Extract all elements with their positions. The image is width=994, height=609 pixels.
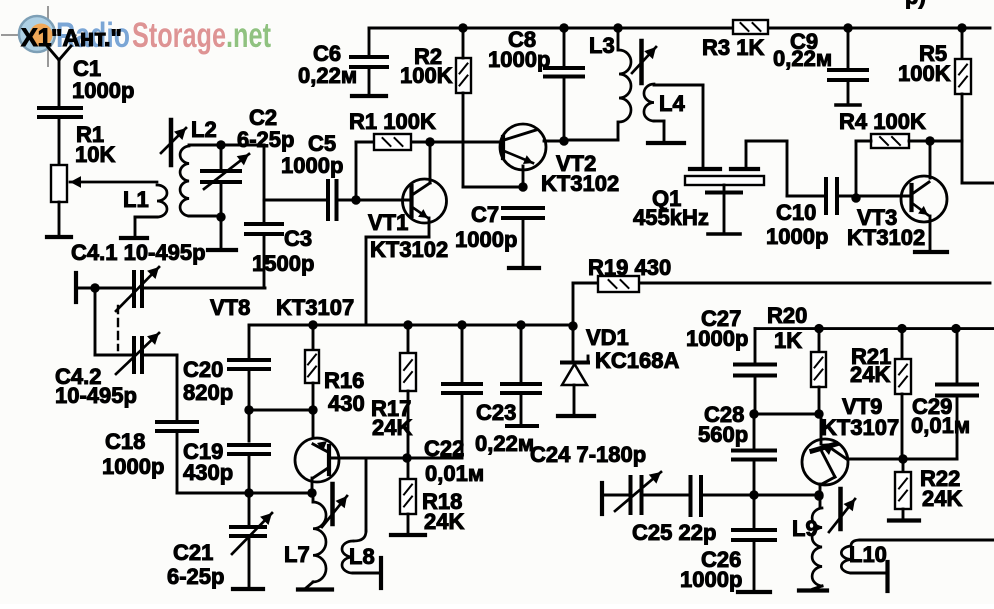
svg-text:24K: 24K — [372, 415, 412, 440]
svg-text:L9: L9 — [792, 516, 818, 541]
svg-text:KT3102: KT3102 — [370, 237, 448, 262]
svg-text:0,22м: 0,22м — [475, 431, 534, 456]
svg-text:KT3102: KT3102 — [847, 225, 925, 250]
svg-text:10K: 10K — [75, 142, 115, 167]
svg-text:1000p: 1000p — [680, 567, 742, 592]
svg-text:24K: 24K — [922, 486, 962, 511]
svg-text:24K: 24K — [850, 362, 890, 387]
svg-text:1000p: 1000p — [72, 78, 134, 103]
svg-text:KT3107: KT3107 — [276, 295, 354, 320]
svg-text:C25 22p: C25 22p — [632, 520, 716, 545]
svg-text:KT3102: KT3102 — [541, 171, 619, 196]
svg-text:C23: C23 — [476, 400, 516, 425]
svg-text:KC168A: KC168A — [595, 348, 679, 373]
svg-text:560p: 560p — [698, 422, 748, 447]
svg-text:0,01м: 0,01м — [911, 413, 970, 438]
svg-text:L7: L7 — [284, 542, 310, 567]
svg-text:6-25p: 6-25p — [237, 127, 294, 152]
svg-text:0,01м: 0,01м — [425, 461, 484, 486]
svg-text:C21: C21 — [173, 540, 213, 565]
svg-text:R3 1K: R3 1K — [702, 35, 764, 60]
svg-text:820p: 820p — [183, 380, 233, 405]
svg-text:L1: L1 — [123, 187, 149, 212]
svg-text:C10: C10 — [776, 200, 816, 225]
svg-text:10-495p: 10-495p — [55, 383, 137, 408]
svg-text:1000p: 1000p — [281, 153, 343, 178]
svg-text:KT3107: KT3107 — [821, 415, 899, 440]
svg-text:L8: L8 — [349, 544, 375, 569]
svg-text:100K: 100K — [898, 61, 951, 86]
svg-text:100K: 100K — [400, 63, 453, 88]
svg-text:C22: C22 — [424, 436, 464, 461]
svg-text:"Ант.": "Ант." — [51, 25, 122, 52]
svg-text:C4.1 10-495p: C4.1 10-495p — [71, 240, 206, 265]
svg-text:0,22м: 0,22м — [773, 46, 832, 71]
svg-text:1000p: 1000p — [686, 326, 748, 351]
svg-text:X1: X1 — [21, 24, 52, 52]
svg-text:24K: 24K — [424, 509, 464, 534]
svg-text:Storage: Storage — [132, 16, 226, 55]
svg-text:1K: 1K — [774, 328, 802, 353]
svg-text:R16: R16 — [324, 368, 364, 393]
svg-text:1000p: 1000p — [102, 454, 164, 479]
svg-text:1000p: 1000p — [455, 227, 517, 252]
svg-text:430: 430 — [328, 391, 365, 416]
svg-text:1000p: 1000p — [766, 224, 828, 249]
svg-text:C18: C18 — [105, 429, 145, 454]
svg-text:R1 100K: R1 100K — [349, 109, 436, 134]
svg-text:455kHz: 455kHz — [633, 205, 709, 230]
svg-text:R19 430: R19 430 — [588, 255, 671, 280]
svg-text:L3: L3 — [589, 33, 615, 58]
svg-text:р): р) — [905, 0, 926, 9]
svg-text:C7: C7 — [471, 202, 499, 227]
svg-text:L10: L10 — [849, 542, 887, 567]
svg-text:R4 100K: R4 100K — [839, 109, 926, 134]
svg-text:VD1: VD1 — [586, 325, 629, 350]
svg-text:L4: L4 — [659, 91, 685, 116]
svg-text:.net: .net — [226, 16, 271, 55]
svg-text:C20: C20 — [183, 357, 223, 382]
svg-text:C24 7-180p: C24 7-180p — [530, 442, 646, 467]
svg-text:6-25p: 6-25p — [167, 564, 224, 589]
svg-text:VT8: VT8 — [210, 295, 250, 320]
svg-text:1500p: 1500p — [252, 251, 314, 276]
svg-text:VT1: VT1 — [368, 210, 408, 235]
svg-text:1000p: 1000p — [488, 47, 550, 72]
svg-text:C3: C3 — [284, 226, 312, 251]
svg-text:430p: 430p — [183, 460, 233, 485]
svg-text:L2: L2 — [191, 117, 217, 142]
svg-text:0,22м: 0,22м — [298, 63, 357, 88]
svg-text:R20: R20 — [767, 303, 807, 328]
